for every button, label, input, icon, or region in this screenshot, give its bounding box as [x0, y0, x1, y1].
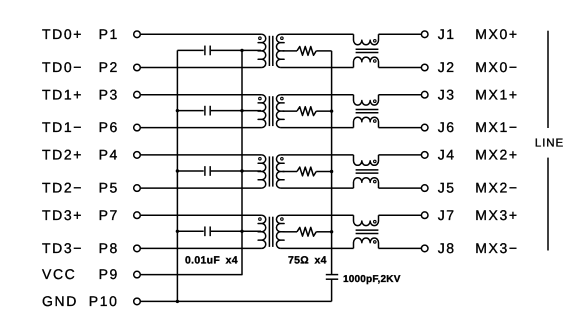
wire capacitor C5 to GND rail [331, 279, 333, 301]
phase dot T2 secondary [281, 97, 284, 100]
capacitor C1 (0.01uF) [205, 46, 210, 56]
choke L4 top winding [354, 215, 379, 225]
svg-text:J2: J2 [438, 59, 456, 75]
wire T3 secondary center tap to resistor R3 [283, 171, 297, 173]
choke L4 bottom winding [354, 238, 379, 248]
terminal J4 [421, 152, 428, 159]
transformer T3 primary winding [258, 155, 266, 188]
junction VCC bus / T3 center tap [240, 169, 243, 172]
wire choke L3 to terminal J4 [379, 154, 422, 156]
terminal P9 [134, 271, 141, 278]
wire T2 secondary top to choke L2 [281, 94, 354, 96]
choke L3 core [356, 170, 379, 173]
phase dot T3 primary [259, 158, 262, 161]
svg-text:J8: J8 [438, 240, 456, 256]
wire T1 secondary top to choke L1 [281, 33, 354, 35]
terminal J7 [421, 212, 428, 219]
transformer T4 core [269, 217, 272, 247]
wire choke L4 to terminal J7 [379, 214, 422, 216]
transformer T4 secondary winding [276, 215, 284, 248]
phase dot choke L1 bottom [374, 60, 377, 63]
junction GND bus / C3 wire [176, 169, 179, 172]
junction termination bus / R2 [330, 109, 333, 112]
capacitor C5 (1000pF 2KV) [326, 275, 338, 280]
wire P8 to transformer T4 primary [141, 247, 262, 249]
wire P6 to transformer T2 primary [141, 127, 262, 129]
phase dot choke L1 top [374, 40, 377, 43]
wire capacitor C1 to T1 primary center tap [211, 49, 261, 51]
resistor R3 (75 ohm) [297, 167, 316, 176]
wire T2 secondary bottom to choke L2 [281, 127, 354, 129]
phase dot T4 primary [259, 218, 262, 221]
wire GND bus to capacitor C3 [177, 170, 203, 172]
terminal J8 [421, 245, 428, 252]
wire choke L2 to terminal J6 [379, 127, 422, 129]
terminal J1 [421, 31, 428, 38]
choke L2 top winding [354, 95, 379, 105]
junction termination bus / R4 [330, 230, 333, 233]
terminal J3 [421, 91, 428, 98]
terminal J6 [421, 124, 428, 131]
svg-text:TD0−: TD0− [42, 59, 83, 75]
junction VCC bus / T1 center tap [240, 49, 243, 52]
wire choke L1 to terminal J2 [379, 67, 422, 69]
transformer T1 secondary winding [276, 34, 284, 67]
wire T1 secondary center tap to resistor R1 [283, 50, 297, 52]
svg-text:P10: P10 [89, 293, 119, 309]
svg-text:P7: P7 [99, 207, 119, 223]
svg-text:MX1+: MX1+ [475, 86, 518, 102]
svg-text:J4: J4 [438, 147, 456, 163]
svg-text:P6: P6 [99, 119, 119, 135]
transformer T4 primary winding [258, 215, 266, 248]
svg-text:P9: P9 [99, 266, 119, 282]
svg-text:J1: J1 [438, 26, 456, 42]
wire GND bus to capacitor C2 [177, 110, 203, 112]
capacitor C4 (0.01uF) [205, 226, 210, 236]
phase dot choke L3 top [374, 160, 377, 163]
svg-text:TD3−: TD3− [42, 240, 83, 256]
choke L3 top winding [354, 155, 379, 165]
svg-text:P8: P8 [99, 240, 119, 256]
wire T4 secondary bottom to choke L4 [281, 247, 354, 249]
choke L2 bottom winding [354, 117, 379, 127]
GND bypass bus (vertical) [176, 50, 178, 301]
choke L3 bottom winding [354, 178, 379, 188]
transformer T1 core [269, 36, 272, 66]
svg-text:J5: J5 [438, 180, 456, 196]
svg-text:TD3+: TD3+ [42, 207, 83, 223]
wire choke L3 to terminal J5 [379, 187, 422, 189]
wire P4 to transformer T3 primary [141, 154, 262, 156]
LINE bracket lower segment [547, 158, 549, 251]
phase dot choke L3 bottom [374, 180, 377, 183]
phase dot choke L4 bottom [374, 241, 377, 244]
svg-text:MX1−: MX1− [475, 119, 518, 135]
svg-text:TD1+: TD1+ [42, 86, 83, 102]
wire P7 to transformer T4 primary [141, 214, 262, 216]
transformer T2 core [269, 96, 272, 126]
wire GND bus to capacitor C1 [177, 49, 203, 51]
svg-text:TD0+: TD0+ [42, 26, 83, 42]
svg-text:P5: P5 [99, 180, 119, 196]
wire P3 to transformer T2 primary [141, 94, 262, 96]
junction VCC bus / T4 center tap [240, 230, 243, 233]
phase dot T1 secondary [281, 37, 284, 40]
wire P5 to transformer T3 primary [141, 187, 262, 189]
resistor R2 (75 ohm) [297, 107, 316, 116]
terminal P2 [134, 64, 141, 71]
svg-text:MX3−: MX3− [475, 240, 518, 256]
phase dot T4 secondary [281, 218, 284, 221]
svg-text:1000pF,2KV: 1000pF,2KV [343, 274, 401, 285]
wire P1 to transformer T1 primary [141, 33, 262, 35]
svg-text:GND: GND [42, 293, 78, 309]
wire T3 secondary top to choke L3 [281, 154, 354, 156]
terminal P6 [134, 124, 141, 131]
transformer T1 primary winding [258, 34, 266, 67]
junction GND bus / GND rail [176, 300, 179, 303]
terminal P7 [134, 212, 141, 219]
terminal P10 [134, 298, 141, 305]
phase dot T3 secondary [281, 158, 284, 161]
wire choke L2 to terminal J3 [379, 94, 422, 96]
wire resistor R3 to termination bus [316, 171, 331, 173]
svg-text:LINE: LINE [535, 137, 564, 149]
capacitor C2 (0.01uF) [205, 106, 210, 116]
transformer T3 core [269, 156, 272, 186]
phase dot choke L2 bottom [374, 120, 377, 123]
wire choke L4 to terminal J8 [379, 247, 422, 249]
svg-text:P1: P1 [99, 26, 119, 42]
wire T4 secondary top to choke L4 [281, 214, 354, 216]
wire T4 secondary center tap to resistor R4 [283, 231, 297, 233]
wire capacitor C2 to T2 primary center tap [211, 110, 261, 112]
transformer T2 secondary winding [276, 95, 284, 128]
wire capacitor C4 to T4 primary center tap [211, 230, 261, 232]
wire resistor R1 to termination bus [316, 50, 331, 52]
wire resistor R4 to termination bus [316, 231, 331, 233]
terminal P5 [134, 185, 141, 192]
svg-text:0.01uF x4: 0.01uF x4 [185, 255, 238, 267]
svg-text:P3: P3 [99, 86, 119, 102]
choke L1 bottom winding [354, 57, 379, 67]
svg-text:MX3+: MX3+ [475, 207, 518, 223]
junction GND bus / C2 wire [176, 109, 179, 112]
svg-text:P4: P4 [99, 147, 119, 163]
junction VCC bus / T2 center tap [240, 109, 243, 112]
LINE bracket upper segment [547, 31, 549, 128]
svg-text:TD2−: TD2− [42, 180, 83, 196]
terminal P4 [134, 152, 141, 159]
terminal J2 [421, 64, 428, 71]
wire GND bus to capacitor C4 [177, 230, 203, 232]
svg-text:TD2+: TD2+ [42, 147, 83, 163]
svg-text:TD1−: TD1− [42, 119, 83, 135]
resistor R4 (75 ohm) [297, 227, 316, 236]
wire choke L1 to terminal J1 [379, 33, 422, 35]
svg-text:J3: J3 [438, 86, 456, 102]
wire T1 secondary bottom to choke L1 [281, 67, 354, 69]
resistor R1 (75 ohm) [297, 47, 316, 56]
terminal J5 [421, 185, 428, 192]
wire resistor R2 to termination bus [316, 110, 331, 112]
choke L4 core [356, 230, 379, 233]
svg-text:MX0+: MX0+ [475, 26, 518, 42]
svg-text:VCC: VCC [42, 266, 76, 282]
svg-text:MX2+: MX2+ [475, 147, 518, 163]
junction GND bus / C4 wire [176, 230, 179, 233]
capacitor C3 (0.01uF) [205, 166, 210, 176]
svg-text:75Ω x4: 75Ω x4 [288, 255, 327, 267]
transformer T2 primary winding [258, 95, 266, 128]
svg-text:J6: J6 [438, 119, 456, 135]
terminal P8 [134, 245, 141, 252]
wire T3 secondary bottom to choke L3 [281, 187, 354, 189]
phase dot choke L4 top [374, 220, 377, 223]
svg-text:MX0−: MX0− [475, 59, 518, 75]
phase dot T2 primary [259, 97, 262, 100]
svg-text:MX2−: MX2− [475, 180, 518, 196]
svg-text:J7: J7 [438, 207, 456, 223]
choke L1 core [356, 49, 379, 52]
choke L1 top winding [354, 34, 379, 44]
wire capacitor C3 to T3 primary center tap [211, 170, 261, 172]
terminal P1 [134, 31, 141, 38]
wire P10 (GND) rail [141, 300, 332, 302]
choke L2 core [356, 110, 379, 113]
transformer T3 secondary winding [276, 155, 284, 188]
termination bus (vertical, resistor commons) [331, 51, 333, 275]
svg-text:P2: P2 [99, 59, 119, 75]
wire T2 secondary center tap to resistor R2 [283, 110, 297, 112]
terminal P3 [134, 91, 141, 98]
wire P9 (VCC) to center-tap bus [141, 50, 242, 274]
phase dot choke L2 top [374, 100, 377, 103]
phase dot T1 primary [259, 37, 262, 40]
wire P2 to transformer T1 primary [141, 67, 262, 69]
junction termination bus / R3 [330, 170, 333, 173]
